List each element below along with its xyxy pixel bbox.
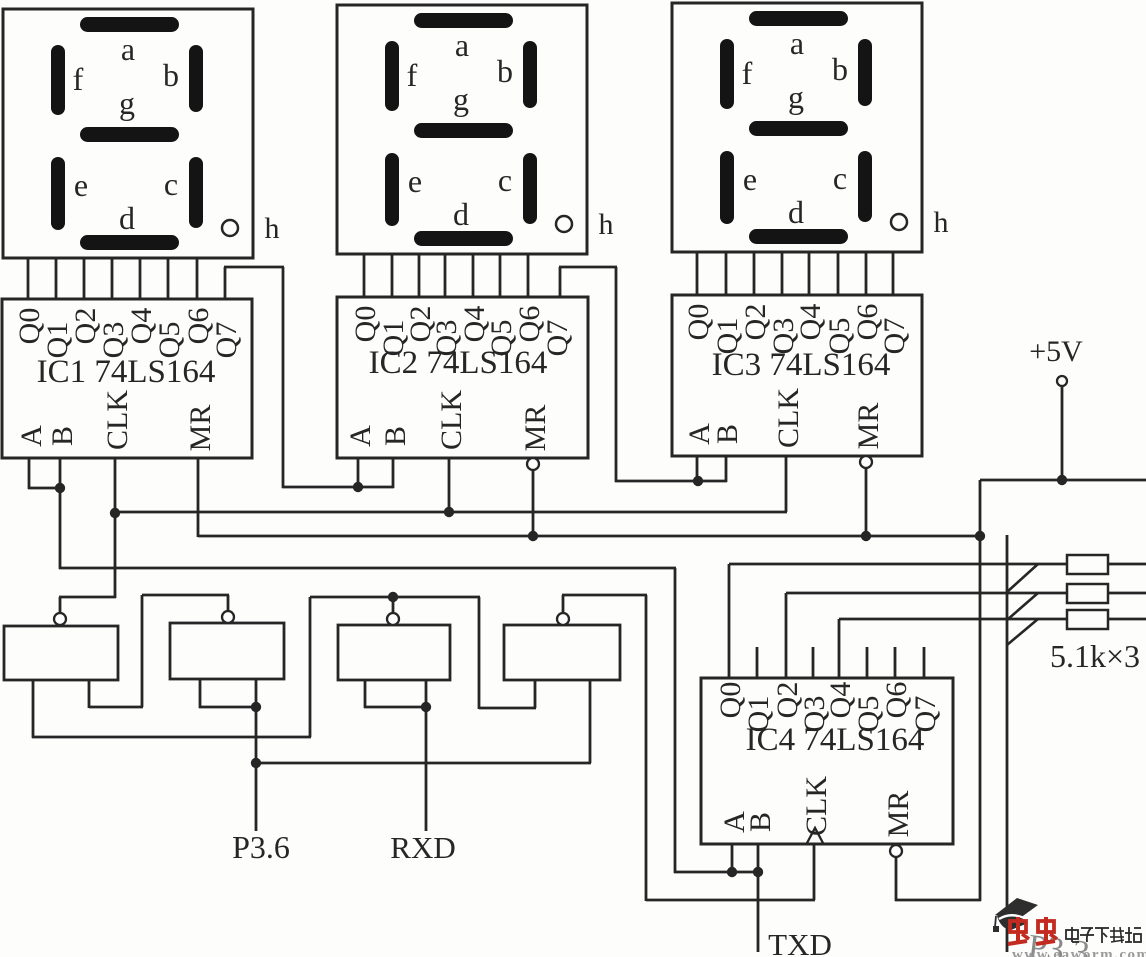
wire IC4 pin B stub — [757, 844, 760, 872]
svg-text:MR: MR — [184, 405, 217, 452]
svg-text:www.eaworm.com: www.eaworm.com — [1012, 947, 1146, 957]
wire IC1 pin A stub — [28, 458, 31, 489]
wire IC4 Q1 stub — [756, 647, 759, 678]
watermark text dianzi xiazaizhan — [1066, 930, 1078, 939]
DS3 segment a — [749, 11, 848, 26]
gate G1 box — [4, 626, 118, 680]
svg-text:P3.6: P3.6 — [232, 829, 290, 865]
wire DS1 pin to IC1 x=168 — [167, 258, 170, 300]
junction IC4 B node — [753, 867, 763, 877]
watermark red character chong 2 — [1038, 921, 1054, 932]
wire G1 output right pin — [88, 680, 91, 708]
wire R3 right lead — [1108, 618, 1146, 621]
watermark graduation cap dome — [997, 913, 1028, 930]
wire DS2 pin to IC2 x=392 — [391, 254, 394, 298]
wire DS2 pin to IC2 x=528 — [527, 254, 530, 298]
svg-text:h: h — [934, 206, 949, 239]
svg-text:d: d — [119, 200, 135, 236]
watermark red character chong 1 — [1010, 921, 1026, 932]
junction MR bus at +5V line — [975, 531, 985, 541]
wire G2 output right pin — [255, 679, 258, 708]
wire G3 output left pin — [364, 680, 367, 708]
DS1 segment f — [51, 45, 65, 115]
bus tap diagonal 2 — [1007, 593, 1038, 620]
junction CLK bus at IC1 — [110, 508, 120, 518]
wire cascade2 to IC3 A B — [615, 480, 727, 483]
junction G2 outputs — [251, 702, 261, 712]
wire IC2 CLK stub — [448, 458, 451, 512]
wire into G1 bubble — [59, 597, 62, 613]
wire DS1 pin to IC1 x=28 — [27, 258, 30, 300]
svg-text:e: e — [408, 163, 422, 199]
wire +5V terminal down — [1061, 386, 1064, 481]
wire IC4 Q2 up — [785, 593, 788, 678]
wire G2 output left pin — [199, 679, 202, 708]
svg-text:e: e — [74, 167, 88, 203]
wire IC2 pin A stub — [357, 458, 360, 488]
DS1 segment e — [51, 157, 65, 230]
wire TXD lead — [757, 872, 760, 952]
IC2 MR inverter bubble — [527, 458, 539, 470]
wire IC4 Q7 stub — [923, 647, 926, 678]
junction P3.6 node — [251, 758, 261, 768]
gate G4 input bubble — [557, 613, 569, 625]
IC3 MR inverter bubble — [860, 456, 872, 468]
svg-text:c: c — [833, 160, 847, 196]
wire DS2 pin to IC2 x=500 — [499, 254, 502, 298]
svg-text:g: g — [788, 79, 804, 115]
svg-text:MR: MR — [519, 405, 552, 452]
svg-text:MR: MR — [882, 791, 915, 838]
svg-text:A: A — [15, 425, 48, 447]
svg-text:Q7: Q7 — [909, 696, 942, 733]
wire IC2 pin B stub — [392, 458, 395, 488]
junction IC1 A-B node — [55, 483, 65, 493]
wire DS3 pin to IC3 x=838 — [837, 251, 840, 296]
DS2 segment b — [523, 41, 537, 108]
DS1 segment b — [189, 45, 203, 112]
svg-text:a: a — [790, 25, 804, 61]
DS3 decimal point circle — [891, 214, 907, 230]
DS2 segment g — [414, 123, 513, 138]
svg-text:Q7: Q7 — [541, 320, 574, 357]
junction MR bus at IC2 — [528, 531, 538, 541]
wire G4 input down — [645, 595, 648, 901]
shift register IC3 74LS164 box — [672, 295, 922, 456]
DS3 segment f — [720, 39, 734, 109]
wire IC4 Q4 up — [838, 619, 841, 678]
wire +5V rail to right edge — [980, 479, 1146, 482]
wire IC3 MR stub — [865, 468, 868, 537]
DS3 segment c — [858, 151, 872, 222]
wire DS3 pin to IC3 x=893 — [892, 251, 895, 296]
wire Q2 line to resistor R2 — [786, 592, 1067, 595]
wire +5V down to IC4 MR — [979, 480, 982, 901]
DS1 segment g — [80, 127, 179, 142]
svg-text:f: f — [73, 61, 84, 97]
wire DS1 pin to IC1 x=197 — [196, 258, 199, 300]
wire IC4 CLK stub — [813, 844, 816, 900]
svg-text:MR: MR — [852, 403, 885, 450]
wire serial data line to right — [59, 567, 676, 570]
wire DS2 pin to IC2 x=419 — [418, 254, 421, 298]
wire IC4 Q0 up — [728, 564, 731, 678]
svg-text:B: B — [711, 424, 744, 444]
wire R2 right lead — [1108, 592, 1146, 595]
watermark cap white band — [999, 915, 1028, 920]
wire to IC4 A B — [674, 871, 758, 874]
wire CLK bus horizontal — [115, 511, 787, 514]
DS2 segment c — [523, 153, 537, 224]
svg-text:Q7: Q7 — [878, 318, 911, 355]
shift register IC4 74LS164 box — [701, 678, 953, 844]
shift register IC2 74LS164 box — [337, 297, 588, 458]
wire Q4 line to resistor R3 — [839, 618, 1067, 621]
svg-text:b: b — [832, 51, 848, 87]
wire cascade1 to IC2 A B — [282, 486, 394, 489]
svg-text:B: B — [744, 812, 777, 832]
DS1 segment c — [189, 157, 203, 228]
svg-text:g: g — [119, 85, 135, 121]
wire serial data down right side — [674, 568, 677, 873]
bus tap diagonal 1 — [1007, 564, 1038, 592]
DS3 segment b — [858, 39, 872, 106]
watermark graduation cap board — [995, 898, 1038, 921]
wire IC1 MR down — [197, 458, 200, 537]
svg-text:5.1k×3: 5.1k×3 — [1050, 638, 1140, 674]
junction at G3 input — [388, 592, 398, 602]
wire G4 bottom-left pin — [534, 680, 537, 708]
svg-text:e: e — [743, 161, 757, 197]
wire DS3 pin to IC3 x=697 — [696, 251, 699, 296]
DS3 segment g — [749, 121, 848, 136]
wire DS2 pin to IC2 x=473 — [472, 254, 475, 298]
svg-text:b: b — [497, 53, 513, 89]
wire DS1 pin to IC1 x=56 — [55, 258, 58, 300]
wire RXD lead — [425, 707, 428, 831]
wire DS3 pin to IC3 x=866 — [865, 251, 868, 296]
svg-text:h: h — [599, 208, 614, 241]
gate G3 box — [338, 625, 450, 680]
wire R1 right lead — [1108, 563, 1146, 566]
DS3 segment e — [720, 151, 734, 224]
resistor R2 — [1067, 584, 1108, 603]
wire P3.6 lead — [255, 763, 258, 831]
svg-text:c: c — [498, 162, 512, 198]
wire DS1 pin to IC1 x=140 — [139, 258, 142, 300]
DS2 segment a — [414, 13, 513, 28]
svg-text:d: d — [788, 194, 804, 230]
svg-text:a: a — [121, 31, 135, 67]
7-segment display DS1 — [3, 9, 253, 258]
gate G2 input bubble — [222, 611, 234, 623]
junction +5V node — [1057, 475, 1067, 485]
svg-text:B: B — [46, 426, 79, 446]
wire IC3 pin A stub — [696, 456, 699, 482]
svg-text:CLK: CLK — [772, 388, 805, 448]
wire IC3 CLK stub — [785, 456, 788, 512]
DS3 segment d — [749, 229, 848, 244]
svg-text:f: f — [407, 57, 418, 93]
IC4 clock edge triangle — [807, 828, 823, 843]
svg-text:d: d — [453, 196, 469, 232]
shift register IC1 74LS164 box — [2, 299, 252, 458]
svg-text:TXD: TXD — [768, 927, 832, 957]
DS1 segment a — [80, 17, 179, 32]
wire DS3 pin to IC3 x=754 — [753, 251, 756, 296]
svg-text:c: c — [164, 166, 178, 202]
svg-text:CLK: CLK — [435, 390, 468, 450]
svg-text:b: b — [163, 57, 179, 93]
svg-text:Q7: Q7 — [210, 322, 243, 359]
7-segment display DS2 — [337, 5, 587, 254]
watermark cap tassel — [995, 916, 996, 927]
svg-text:IC1 74LS164: IC1 74LS164 — [37, 354, 216, 390]
wire DS3 pin to IC3 x=726 — [725, 251, 728, 296]
svg-text:CLK: CLK — [800, 776, 833, 836]
svg-text:+5V: +5V — [1029, 335, 1083, 368]
+5V terminal circle — [1057, 376, 1067, 386]
svg-text:a: a — [455, 27, 469, 63]
wire into G4 bubble — [562, 595, 565, 613]
bus tap diagonal 3 — [1007, 619, 1038, 645]
junction IC2 A-B node — [353, 482, 363, 492]
DS2 segment d — [414, 231, 513, 246]
wire G4 bottom-right pin — [589, 680, 592, 763]
wire IC1 Q7 cascade jog — [224, 267, 227, 300]
bus line vertical — [1006, 535, 1009, 952]
DS2 decimal point circle — [556, 216, 572, 232]
junction MR bus at IC3 — [861, 531, 871, 541]
wire DS3 pin to IC3 x=782 — [781, 251, 784, 296]
DS2 segment f — [385, 41, 399, 111]
svg-text:h: h — [265, 212, 280, 245]
wire IC4 Q6 stub — [894, 647, 897, 678]
svg-text:CLK: CLK — [101, 390, 134, 450]
resistor R1 — [1067, 555, 1108, 574]
IC4 MR inverter bubble — [890, 845, 902, 857]
gate G2 box — [170, 623, 284, 679]
wire IC4 pin A stub — [731, 844, 734, 872]
wire DS2 pin to IC2 x=445 — [444, 254, 447, 298]
wire IC4 Q3 stub — [812, 647, 815, 678]
wire DS1 pin to IC1 x=84 — [83, 258, 86, 300]
DS2 segment e — [385, 153, 399, 226]
wire to G2 bubble — [142, 594, 229, 597]
7-segment display DS3 — [672, 3, 922, 252]
wire G1 output left pin — [32, 680, 35, 738]
wire DS2 pin to IC2 x=364 — [363, 254, 366, 298]
wire into G3 bubble — [392, 597, 395, 613]
resistor R3 — [1067, 610, 1108, 629]
svg-text:f: f — [742, 55, 753, 91]
wire DS1 pin to IC1 x=112 — [111, 258, 114, 300]
junction G3 outputs — [421, 702, 431, 712]
wire IC2 Q7 cascade jog — [559, 267, 562, 298]
junction CLK bus at IC2 — [444, 507, 454, 517]
wire IC4 Q5 stub — [866, 647, 869, 678]
junction IC4 A node — [727, 867, 737, 877]
wire CLK to gate G1 input — [59, 596, 116, 599]
wire IC3 pin B stub — [725, 456, 728, 482]
gate G4 box — [504, 625, 620, 680]
svg-text:g: g — [453, 81, 469, 117]
wire DS3 pin to IC3 x=809 — [808, 251, 811, 296]
svg-text:A: A — [344, 425, 377, 447]
wire IC1 A to B — [28, 487, 61, 490]
wire Q0 line to resistor R1 — [729, 563, 1067, 566]
wire G3 input line — [310, 596, 480, 599]
wire G3 output right pin — [425, 680, 428, 708]
DS1 decimal point circle — [222, 220, 238, 236]
gate G1 input bubble — [54, 613, 66, 625]
DS1 segment d — [80, 235, 179, 250]
gate G3 input bubble — [387, 613, 399, 625]
wire IC4 MR stub — [895, 857, 898, 901]
svg-text:B: B — [379, 426, 412, 446]
wire to IC4 MR bubble — [895, 899, 981, 902]
wire IC2 MR stub — [532, 470, 535, 537]
junction IC3 A-B node — [693, 476, 703, 486]
svg-text:RXD: RXD — [390, 830, 455, 865]
wire IC1 CLK down — [114, 458, 117, 598]
wire IC1 pin B down — [59, 458, 62, 569]
wire MR bus horizontal — [198, 535, 981, 538]
